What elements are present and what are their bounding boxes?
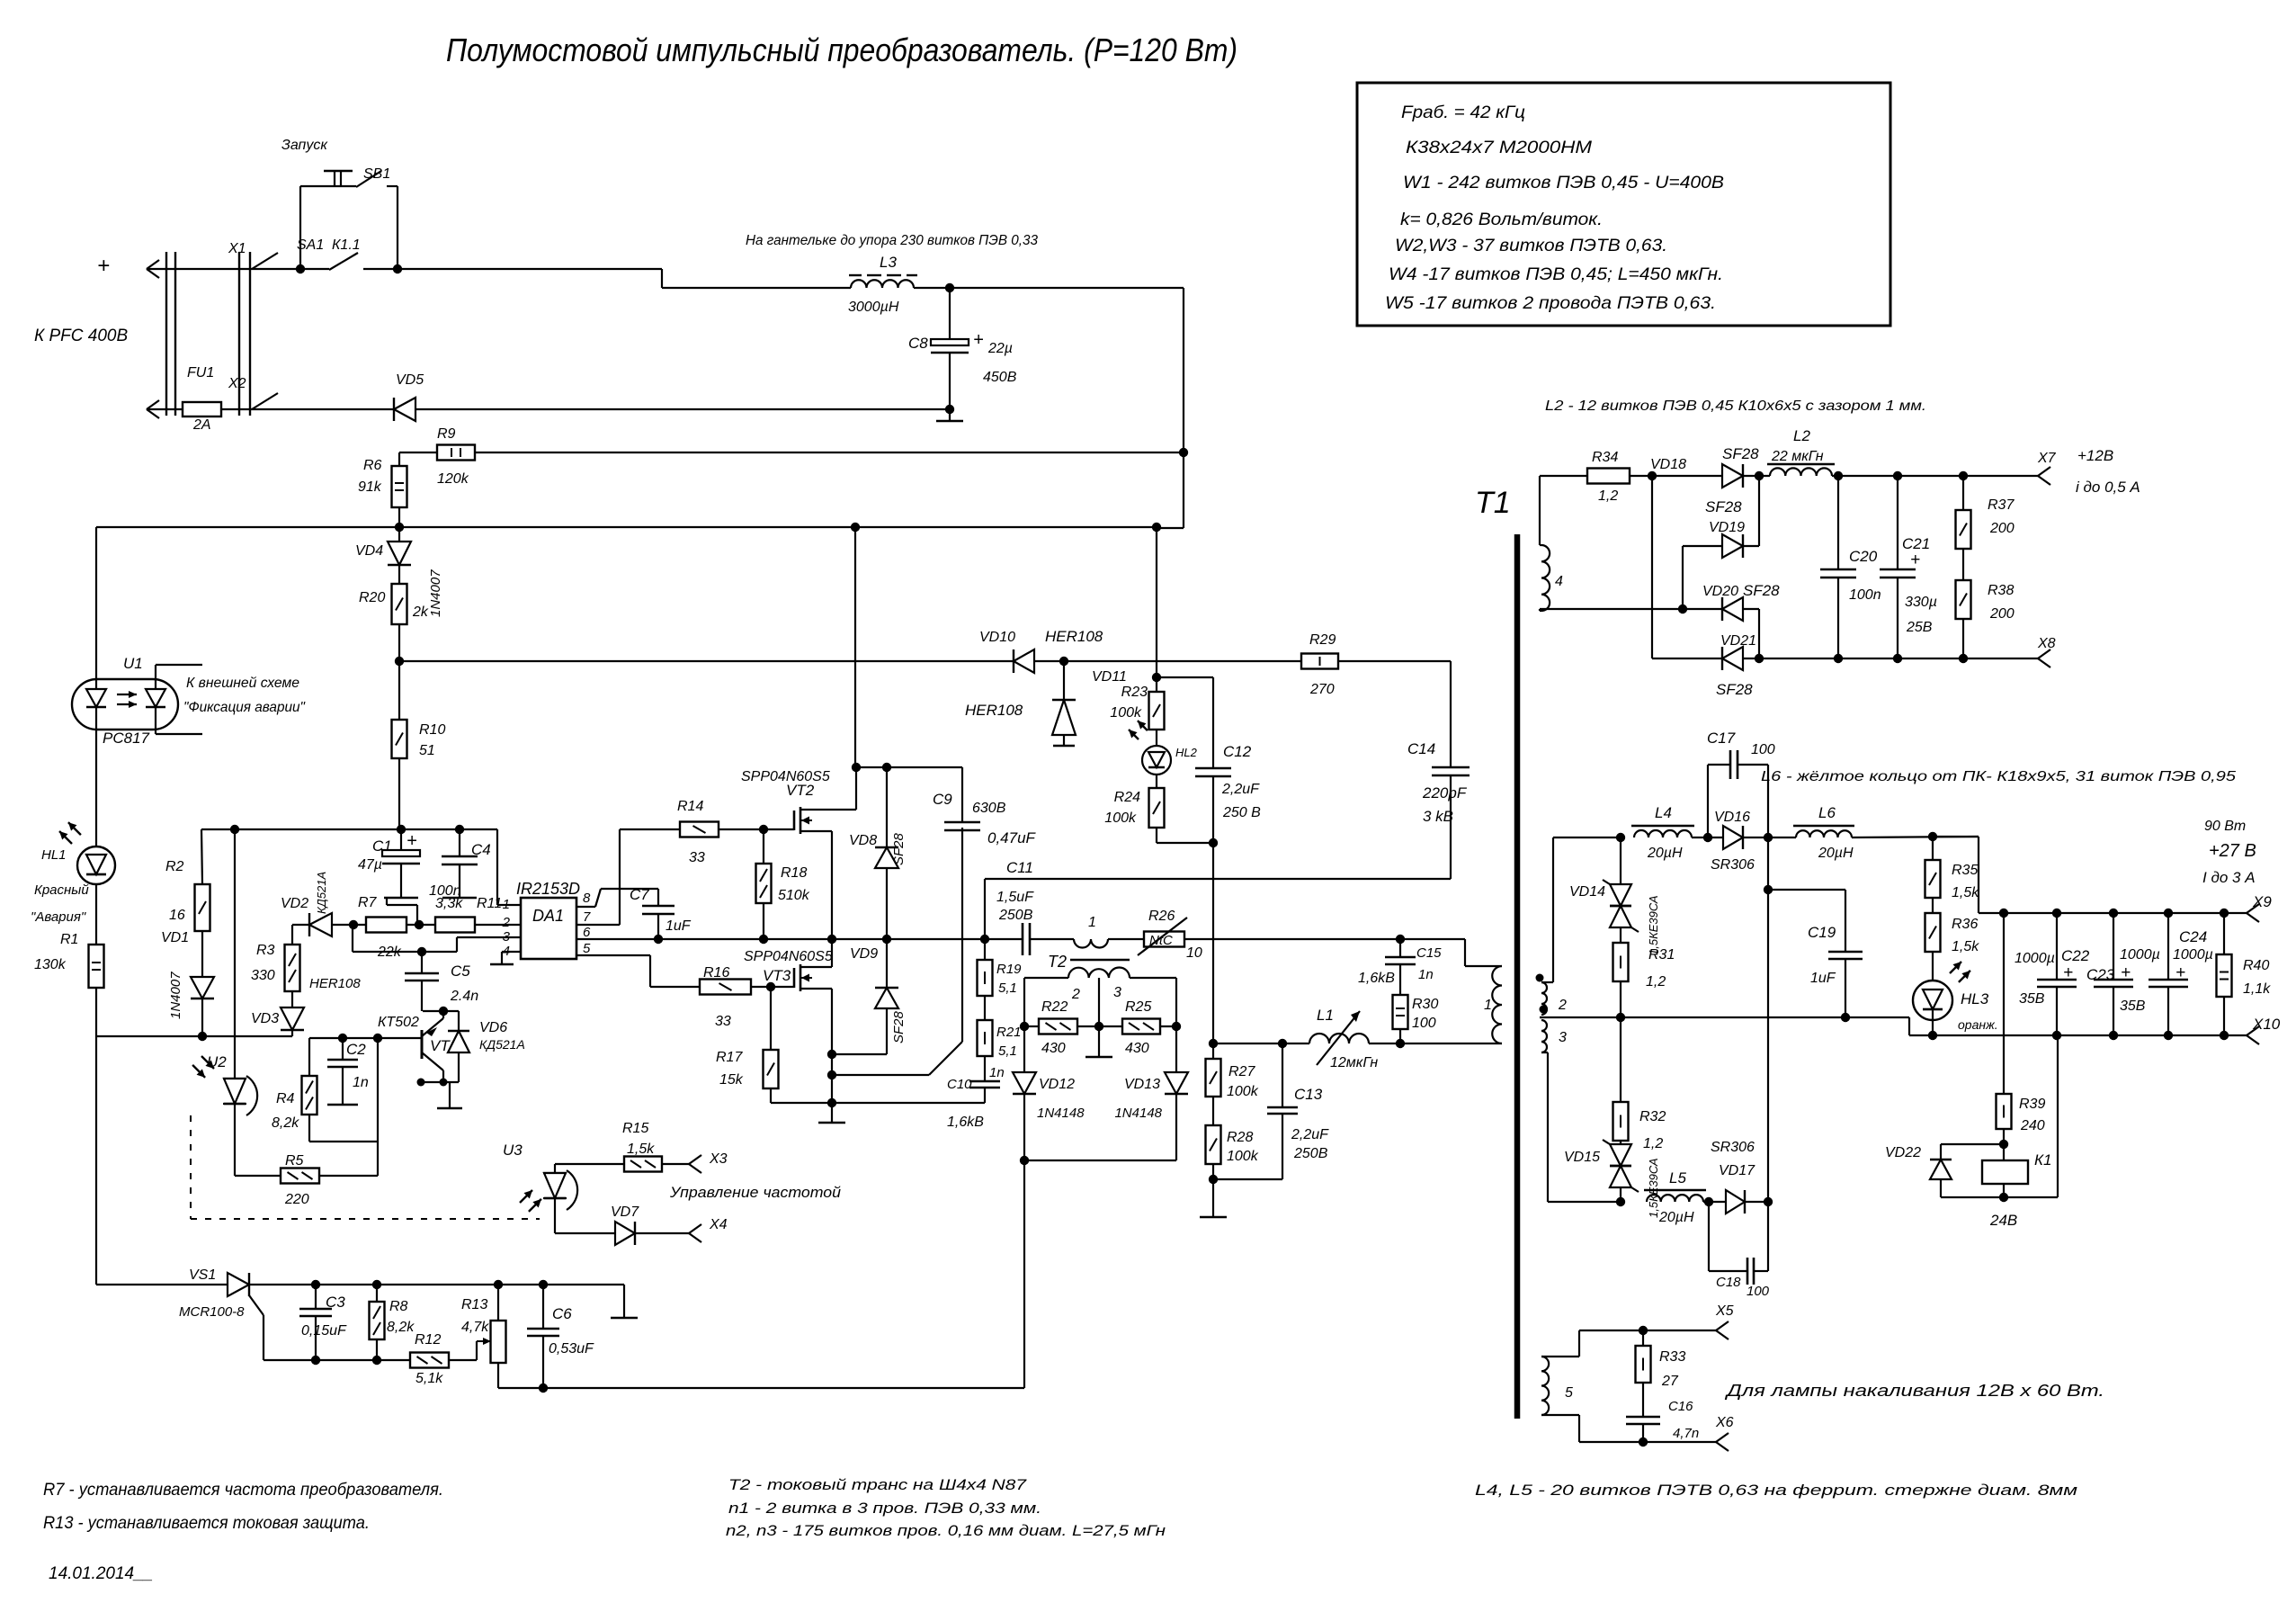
svg-text:R22: R22 <box>1041 999 1068 1015</box>
svg-text:VD12: VD12 <box>1039 1077 1075 1092</box>
svg-text:2: 2 <box>502 915 511 930</box>
svg-text:X4: X4 <box>709 1217 728 1232</box>
svg-text:270: 270 <box>1309 682 1335 697</box>
wire winding5 top <box>1541 1356 1579 1357</box>
svg-text:R25: R25 <box>1125 999 1151 1015</box>
svg-text:C24: C24 <box>2179 928 2207 945</box>
svg-text:130k: 130k <box>34 957 67 972</box>
relay K1 coil <box>1982 1160 2028 1184</box>
junction R18 VS <box>759 935 768 944</box>
diode VD3 <box>291 1030 293 1036</box>
svg-text:R9: R9 <box>437 426 456 442</box>
inductor L6 <box>1796 830 1852 837</box>
svg-text:35В: 35В <box>2019 991 2045 1007</box>
svg-text:27: 27 <box>1661 1374 1679 1389</box>
wire VD7 to X4 <box>635 1232 689 1234</box>
junction C7 VS <box>654 935 663 944</box>
svg-text:W1 - 242 витков ПЭВ 0,45 - U=4: W1 - 242 витков ПЭВ 0,45 - U=400В <box>1403 174 1724 193</box>
svg-text:4,7n: 4,7n <box>1673 1426 1699 1441</box>
svg-text:VS1: VS1 <box>189 1267 216 1283</box>
svg-text:SF28: SF28 <box>1743 582 1780 599</box>
svg-text:C7: C7 <box>630 886 649 903</box>
resistor R5 <box>281 1169 319 1184</box>
svg-text:VD1: VD1 <box>161 930 189 945</box>
junction VT2 source <box>827 935 836 944</box>
wire VD16 out <box>1743 837 1796 838</box>
wire bottom net left <box>96 1035 292 1037</box>
svg-text:На гантельке до упора 230 витк: На гантельке до упора 230 витков ПЭВ 0,3… <box>746 233 1038 248</box>
junction VCC top <box>395 657 404 666</box>
junction R22 left <box>1020 1022 1029 1031</box>
wire VD1 to bottom net <box>201 999 203 1036</box>
ground VT3 source <box>831 1103 833 1123</box>
resistor R35 <box>1932 837 1934 860</box>
capacitor C2 <box>342 1038 344 1060</box>
svg-text:R15: R15 <box>622 1121 648 1136</box>
svg-text:U3: U3 <box>503 1142 523 1159</box>
resistor R24 <box>1156 775 1157 788</box>
svg-text:C23: C23 <box>2086 966 2115 983</box>
svg-text:1,1k: 1,1k <box>2243 981 2271 997</box>
svg-text:1uF: 1uF <box>666 918 692 934</box>
svg-text:R13: R13 <box>461 1297 487 1312</box>
svg-text:220: 220 <box>284 1192 309 1207</box>
svg-text:R19: R19 <box>996 962 1022 977</box>
resistor R20 <box>398 565 400 584</box>
svg-text:L4, L5 - 20 витков ПЭТВ 0,63 н: L4, L5 - 20 витков ПЭТВ 0,63 на феррит. … <box>1475 1482 2077 1499</box>
svg-text:100k: 100k <box>1104 810 1137 826</box>
phase dot winding 2 <box>1536 974 1544 982</box>
capacitor C22 <box>2056 913 2058 980</box>
capacitor C24 <box>2167 913 2169 980</box>
junction C22 top <box>2052 909 2061 918</box>
transistor VT2 SPP04N60S5 <box>793 810 796 830</box>
wire winding4 top <box>1540 544 1541 546</box>
resistor R19 <box>984 939 986 960</box>
svg-text:25В: 25В <box>1906 620 1933 635</box>
wire R39 branch <box>2003 913 2005 1094</box>
diode VD13 <box>1175 1026 1177 1072</box>
wire winding4 bottom <box>1540 610 1541 612</box>
junction C12 L1 node <box>1209 1039 1218 1048</box>
svg-text:240: 240 <box>2020 1118 2045 1133</box>
transistor VT1 KT502 <box>421 1030 424 1059</box>
svg-text:КТ502: КТ502 <box>378 1015 419 1030</box>
junction R34 node <box>1648 471 1657 480</box>
svg-text:630В: 630В <box>972 801 1006 816</box>
junction VD12 bottom <box>1020 1156 1029 1165</box>
svg-text:100k: 100k <box>1227 1084 1259 1099</box>
svg-text:90 Вт: 90 Вт <box>2204 819 2246 834</box>
resistor R6 <box>398 452 400 466</box>
capacitor C1 <box>400 829 402 850</box>
diode VD21 SF28 <box>1722 647 1743 670</box>
LED HL1 <box>77 846 115 884</box>
optocoupler U3 LED <box>554 1164 556 1173</box>
wire R34 out <box>1630 475 1722 477</box>
svg-text:20µН: 20µН <box>1818 846 1854 861</box>
transistor VT3 SPP04N60S5 <box>793 968 796 988</box>
diode VD2 <box>309 913 332 936</box>
svg-text:X8: X8 <box>2037 636 2056 651</box>
wire U3 to VD7 <box>554 1219 556 1233</box>
resistor R8 <box>376 1285 378 1302</box>
svg-text:SR306: SR306 <box>1711 857 1755 873</box>
ground T2 tap <box>1098 1026 1100 1057</box>
svg-text:U1: U1 <box>123 655 143 672</box>
junction R40 bottom <box>2220 1031 2229 1040</box>
svg-text:W5 -17 витков 2 провода ПЭТВ 0: W5 -17 витков 2 провода ПЭТВ 0,63. <box>1385 294 1716 313</box>
svg-text:L5: L5 <box>1669 1169 1686 1187</box>
svg-text:250 В: 250 В <box>1222 805 1261 820</box>
wire VS1 row <box>96 1284 228 1285</box>
wire VD2 to R7 <box>332 924 366 926</box>
wire R39 bottom <box>2003 1129 2005 1160</box>
wire plus rail to L3 <box>398 268 662 270</box>
junction C5 top <box>417 947 426 956</box>
junction VT2 gate R18 <box>759 825 768 834</box>
connector X2 <box>147 400 159 409</box>
button SB1 <box>299 186 301 269</box>
LED HL3 <box>1932 952 1934 981</box>
svg-text:HER108: HER108 <box>309 976 361 991</box>
svg-text:1,5k: 1,5k <box>627 1142 655 1157</box>
junction VD18 L2 <box>1755 471 1764 480</box>
relay contact K1.1 <box>300 268 329 270</box>
LED HL2 <box>1156 730 1157 747</box>
resistor R11 <box>435 918 475 933</box>
svg-text:250В: 250В <box>998 908 1033 923</box>
resistor R15 <box>624 1157 662 1172</box>
wire winding5 bottom <box>1541 1414 1579 1416</box>
thyristor VS1 MCR100-8 <box>228 1273 249 1296</box>
transformer T1 winding 2 <box>1541 982 1547 1015</box>
svg-text:L2: L2 <box>1793 427 1810 444</box>
capacitor C16 <box>1642 1383 1644 1417</box>
svg-text:VD16: VD16 <box>1714 810 1750 825</box>
svg-text:22µ: 22µ <box>987 341 1013 356</box>
fuse FU1 <box>183 402 221 416</box>
svg-text:R40: R40 <box>2243 958 2269 973</box>
svg-text:8: 8 <box>583 891 591 906</box>
wire R38 bottom <box>1962 619 1964 658</box>
svg-text:1N4148: 1N4148 <box>1114 1106 1162 1121</box>
junction C8 top <box>945 283 954 292</box>
inductor L3 <box>851 280 914 288</box>
wire R6 to line B <box>398 507 400 527</box>
capacitor C12 <box>1195 767 1231 770</box>
wire R26 out <box>1184 938 1400 940</box>
svg-text:1N4148: 1N4148 <box>1037 1106 1085 1121</box>
svg-text:"Авария": "Авария" <box>31 909 86 925</box>
capacitor C8 <box>949 288 951 339</box>
capacitor C20 <box>1837 476 1839 569</box>
wire R37 R38 <box>1962 549 1964 580</box>
svg-text:HL2: HL2 <box>1175 746 1198 759</box>
junction C2 top <box>338 1034 347 1043</box>
wire L1 to winding <box>1369 1043 1502 1044</box>
svg-text:+: + <box>973 330 984 350</box>
wire R27 to R28 <box>1212 1097 1214 1125</box>
junction R30 bottom <box>1396 1039 1405 1048</box>
svg-text:C12: C12 <box>1223 743 1252 760</box>
svg-text:20µН: 20µН <box>1658 1210 1694 1225</box>
svg-text:SF28: SF28 <box>1705 498 1742 515</box>
svg-text:2,2uF: 2,2uF <box>1291 1127 1329 1142</box>
diode VD12 <box>1023 1026 1025 1072</box>
junction drain rail VT2 <box>852 763 861 772</box>
svg-text:24В: 24В <box>1989 1212 2017 1229</box>
svg-text:X10: X10 <box>2252 1016 2281 1033</box>
svg-text:2: 2 <box>1071 987 1080 1002</box>
svg-text:W4 -17 витков ПЭВ 0,45; L=450: W4 -17 витков ПЭВ 0,45; L=450 мкГн. <box>1389 265 1723 284</box>
svg-text:VD14: VD14 <box>1569 884 1605 900</box>
svg-text:51: 51 <box>419 743 435 758</box>
svg-text:5,1: 5,1 <box>998 1043 1017 1059</box>
wire C7 to VS rail <box>657 914 659 939</box>
svg-text:VD7: VD7 <box>611 1205 639 1220</box>
wire pin7 to R14 <box>576 924 620 926</box>
svg-text:R30: R30 <box>1412 997 1438 1012</box>
resistor R28 <box>1206 1125 1221 1164</box>
svg-text:7: 7 <box>583 909 591 925</box>
resistor R23 <box>1156 677 1157 692</box>
junction relay top <box>1999 1140 2008 1149</box>
svg-text:R38: R38 <box>1988 583 2014 598</box>
diode VD19 SF28 <box>1683 545 1722 547</box>
svg-text:VD18: VD18 <box>1650 457 1686 472</box>
junction R40 top <box>2220 909 2229 918</box>
transformer T1 winding 3 <box>1541 1020 1547 1052</box>
svg-text:R21: R21 <box>996 1025 1022 1040</box>
diode VD16 SR306 <box>1723 826 1743 849</box>
wire VD12 bottom <box>1023 1094 1025 1160</box>
wire R13 row to C6 <box>498 1284 543 1285</box>
info box frame <box>1357 83 1890 326</box>
svg-text:1: 1 <box>503 897 510 912</box>
junction C21 top <box>1893 471 1902 480</box>
svg-text:DA1: DA1 <box>532 907 564 925</box>
junction VD16 in <box>1703 833 1712 842</box>
svg-text:VD20: VD20 <box>1702 584 1738 599</box>
capacitor C10 <box>984 1056 986 1081</box>
capacitor C7 <box>642 905 675 908</box>
svg-text:SF28: SF28 <box>891 832 907 865</box>
svg-text:R1: R1 <box>60 932 78 947</box>
wire R11 to pin2 <box>475 924 521 926</box>
svg-text:C18: C18 <box>1716 1275 1741 1290</box>
svg-text:20µН: 20µН <box>1647 846 1683 861</box>
svg-text:430: 430 <box>1125 1041 1149 1056</box>
svg-text:R13 - устанавливается токовая: R13 - устанавливается токовая защита. <box>43 1514 370 1533</box>
svg-text:22 мкГн: 22 мкГн <box>1771 449 1824 464</box>
svg-text:C1: C1 <box>372 837 392 855</box>
junction R8 top <box>372 1280 381 1289</box>
diode VD8 <box>886 767 888 847</box>
junction VD2 R7 <box>349 920 358 929</box>
svg-text:C9: C9 <box>933 791 952 808</box>
resistor R33 <box>1642 1330 1644 1346</box>
capacitor C19 <box>1768 889 1845 891</box>
wire U3 to R15 <box>554 1163 556 1165</box>
capacitor C17 <box>1707 765 1709 837</box>
svg-text:12мкГн: 12мкГн <box>1330 1055 1378 1070</box>
svg-text:33: 33 <box>689 850 705 865</box>
connector X9 <box>2247 904 2259 913</box>
junction C9 line <box>827 1070 836 1079</box>
svg-text:R36: R36 <box>1952 917 1978 932</box>
svg-text:R2: R2 <box>165 859 184 874</box>
junction C19 tap <box>1841 1013 1850 1022</box>
optocoupler U2 LED <box>234 829 236 1079</box>
wire R28 gnd <box>1212 1164 1214 1217</box>
wire left vertical top <box>95 527 97 679</box>
svg-text:5: 5 <box>583 941 591 956</box>
wire R29 to C14 <box>1338 660 1451 662</box>
svg-text:L3: L3 <box>880 254 897 271</box>
svg-text:2: 2 <box>1558 998 1567 1013</box>
svg-text:SF28: SF28 <box>1722 445 1759 462</box>
IC DA1 IR2153D <box>521 898 576 959</box>
svg-text:PC817: PC817 <box>103 730 150 747</box>
svg-text:VD5: VD5 <box>396 372 424 388</box>
junction VD8 VS <box>882 935 891 944</box>
wire R13 bottom <box>497 1363 499 1388</box>
transformer T2 core <box>1070 959 1130 962</box>
wire R10 to VCC rail <box>398 758 400 829</box>
svg-text:VD4: VD4 <box>355 543 383 559</box>
svg-text:C13: C13 <box>1294 1086 1323 1103</box>
capacitor C6 <box>542 1285 544 1329</box>
wire C5 to VT1 emitter <box>423 1010 459 1012</box>
svg-text:2k: 2k <box>412 604 429 620</box>
svg-text:VD19: VD19 <box>1709 520 1745 535</box>
junction collector right <box>440 1079 448 1087</box>
svg-text:100n: 100n <box>1849 587 1881 603</box>
svg-text:L6: L6 <box>1818 804 1836 821</box>
resistor R36 <box>1932 898 1934 913</box>
svg-text:C4: C4 <box>471 841 491 858</box>
svg-text:120k: 120k <box>437 471 469 487</box>
svg-text:HL3: HL3 <box>1961 990 1989 1007</box>
diode VD18 SF28 <box>1722 464 1743 488</box>
junction VT1 emitter <box>439 1007 448 1016</box>
svg-text:4,7k: 4,7k <box>461 1320 489 1335</box>
wire VD9 line <box>832 1053 887 1055</box>
svg-text:1,5k: 1,5k <box>1952 939 1979 954</box>
wire VCC rail <box>201 828 497 830</box>
svg-text:IR2153D: IR2153D <box>516 880 580 898</box>
capacitor C15 <box>1399 939 1401 957</box>
wire R18 to VS rail <box>763 903 764 939</box>
wire 735 rail left <box>399 660 1014 662</box>
svg-text:C11: C11 <box>1006 859 1033 876</box>
svg-text:R23: R23 <box>1121 685 1148 700</box>
svg-text:5,1k: 5,1k <box>415 1371 443 1386</box>
junction C3 top <box>311 1280 320 1289</box>
transformer T1 winding 5 <box>1541 1357 1549 1415</box>
svg-text:47µ: 47µ <box>358 857 382 873</box>
svg-text:I до 3 А: I до 3 А <box>2202 869 2256 886</box>
svg-text:W2,W3 - 37 витков ПЭТВ 0,63.: W2,W3 - 37 витков ПЭТВ 0,63. <box>1395 237 1667 255</box>
svg-text:+12В: +12В <box>2077 447 2113 464</box>
svg-text:R6: R6 <box>363 458 382 473</box>
ground at C8 <box>949 409 951 421</box>
svg-text:C14: C14 <box>1407 740 1435 757</box>
switch SA1 upper blade <box>252 253 278 269</box>
wire VT3 drain <box>816 966 832 968</box>
svg-text:R39: R39 <box>2019 1097 2045 1112</box>
svg-text:SB1: SB1 <box>363 166 390 182</box>
wire pin8 bootstrap <box>576 906 595 908</box>
resistor R26 NTC <box>1144 932 1184 947</box>
wire HL1 to R1 <box>95 884 97 945</box>
svg-text:8,2k: 8,2k <box>272 1115 299 1131</box>
resistor R40 <box>2223 913 2225 954</box>
junction SB1 left <box>296 264 305 273</box>
resistor R2 <box>201 829 202 884</box>
inductor L2 <box>1770 468 1832 476</box>
wire winding3 bottom <box>1541 1052 1548 1053</box>
diode VD9 <box>886 939 888 988</box>
svg-text:100k: 100k <box>1110 705 1142 721</box>
svg-text:1N4007: 1N4007 <box>168 972 183 1019</box>
wire R9 line <box>399 452 437 453</box>
svg-text:C15: C15 <box>1416 945 1442 961</box>
capacitor C11 <box>1022 923 1024 955</box>
diode VD22 <box>1941 1143 2004 1145</box>
optocoupler U1 <box>72 679 178 730</box>
svg-text:SPP04N60S5: SPP04N60S5 <box>744 949 833 964</box>
svg-text:оранж.: оранж. <box>1958 1017 1998 1032</box>
trimmer R13 <box>491 1321 506 1363</box>
svg-text:6: 6 <box>583 925 591 940</box>
junction C23 bottom <box>2109 1031 2118 1040</box>
svg-text:R18: R18 <box>781 865 807 881</box>
wire U1 emitter out <box>155 730 156 734</box>
wire X1 to connector bars <box>147 268 300 270</box>
capacitor C3 <box>315 1285 317 1309</box>
junction VD20 bottom <box>1755 654 1764 663</box>
junction VD16 L6 <box>1764 833 1773 842</box>
wire R30 to L1 row <box>1399 1029 1401 1043</box>
svg-text:C6: C6 <box>552 1305 572 1322</box>
junction C24 bottom <box>2164 1031 2173 1040</box>
wire R16 to VT3 gate <box>751 986 794 988</box>
svg-text:3 kВ: 3 kВ <box>1423 808 1453 825</box>
diode VD1 <box>201 931 203 977</box>
svg-text:Управление частотой: Управление частотой <box>669 1184 842 1201</box>
junction C1 <box>397 825 406 834</box>
wire C12 branch <box>1157 676 1213 678</box>
connector X8 <box>2038 649 2050 658</box>
wire C9 top <box>961 767 963 822</box>
wire R5 to base node <box>319 1175 378 1177</box>
svg-text:R27: R27 <box>1228 1064 1255 1079</box>
svg-text:X3: X3 <box>709 1151 728 1167</box>
resistor R30 <box>1393 995 1408 1029</box>
svg-text:R24: R24 <box>1114 790 1140 805</box>
svg-text:R17: R17 <box>716 1050 743 1065</box>
dashed optical link <box>190 1115 192 1219</box>
svg-text:MCR100-8: MCR100-8 <box>179 1304 245 1320</box>
junction relay bottom <box>1999 1193 2008 1202</box>
svg-text:FU1: FU1 <box>187 365 214 381</box>
svg-text:+: + <box>2175 963 2185 982</box>
wire R25 right <box>1160 1025 1176 1027</box>
capacitor C13 <box>1282 1043 1283 1107</box>
junction R31 tap <box>1616 1013 1625 1022</box>
